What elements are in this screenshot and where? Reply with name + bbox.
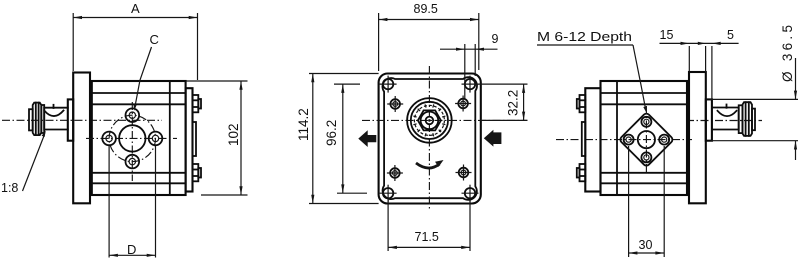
svg-text:30: 30 [639,238,653,252]
svg-text:A: A [131,1,140,16]
flow arrow right [484,130,502,147]
bolt head top (right view) [577,95,586,112]
wire: body split line [169,81,171,195]
mounting flange (right view) [689,72,706,203]
port boss on cover [193,122,197,156]
washer (left shaft) [41,105,44,133]
pilot boss (right view) [706,99,712,140]
corner hole BL [380,185,397,202]
wire: body lines right view [601,92,688,94]
wire: shaft centerline left view [2,119,162,121]
svg-text:M 6-12 Depth: M 6-12 Depth [537,29,632,44]
dimension 30 [629,146,665,257]
wire: port vertical centerline right view [645,106,647,174]
wire: right port horizontal centerline [556,139,692,141]
dimension dia 36.5 [710,25,798,160]
shaft boss circles [407,98,452,143]
port hole top [126,108,140,122]
svg-text:89.5: 89.5 [414,2,438,16]
svg-text:32.2: 32.2 [506,90,521,116]
corner hole TL [380,76,397,93]
corner hole TR [462,76,479,93]
shaft (left, tapered 1:8) [44,105,68,130]
port relief diamond [619,112,674,167]
label M 6-12 Depth with leader [537,29,646,113]
dimension 71.5 [388,199,470,251]
port hole right [149,132,163,146]
wire: port horizontal centerline [86,137,177,139]
shaft (right, tapered) [712,105,739,130]
svg-text:71.5: 71.5 [415,230,439,244]
flange plate outline [379,74,481,204]
bolt head bottom (left view) [193,164,202,181]
dimension 89.5 [379,2,479,71]
dimension 102 [186,81,248,195]
svg-text:1:8: 1:8 [1,181,18,195]
tapped hole W [624,135,634,145]
center port hole [119,125,145,151]
bolt circle (dash-dot) [109,115,155,161]
dimension 15 and 5 [660,28,739,99]
dimension 114.2 [296,74,379,204]
tapped hole N [641,117,651,127]
pilot boss (left, dia 36.5) [68,99,73,140]
port boss on cover (right view) [582,122,586,156]
rear cover (left view) [186,88,193,191]
small hole TR [455,96,471,112]
tapped hole S [641,152,651,162]
wire: port vertical centerline [131,102,133,181]
wire: body lower lines [92,172,186,174]
svg-text:C: C [150,32,159,47]
flow arrow left [358,130,376,147]
dimension 9 [440,32,499,98]
svg-text:96.2: 96.2 [324,120,339,146]
nut (left shaft) [29,103,41,136]
tapped hole E [659,135,669,145]
center port hole (right view) [638,131,655,148]
svg-text:15: 15 [660,28,674,42]
pump body (right view) [601,81,688,195]
svg-text:5: 5 [727,28,734,42]
mounting flange (left view) [73,73,90,204]
washer (right shaft) [739,105,743,133]
wire: right shaft centerline [686,120,762,122]
nut (right shaft) [743,102,756,136]
bolt head bottom (right view) [577,164,586,181]
dimension 96.2 [324,84,367,193]
small hole BR [456,165,472,181]
corner hole BR [462,185,479,202]
bolt head top (left view) [193,95,202,112]
port hole bottom [126,155,140,169]
small hole BL [387,165,403,181]
svg-text:102: 102 [226,123,241,146]
flange inner contour [382,77,477,200]
dimension 32.2 [475,84,528,120]
rear cover (right view) [585,88,600,191]
label C with leader [134,32,159,111]
dimension A [73,1,197,80]
svg-text:D: D [127,242,136,257]
dimension D [109,146,155,258]
wire: middle vertical centerline [428,66,430,211]
svg-text:114.2: 114.2 [296,108,311,141]
small hole TL [387,96,403,112]
svg-text:9: 9 [492,32,499,46]
rotation arrow [416,160,444,168]
pump body (left view) [92,81,186,195]
wire: middle horizontal centerline [362,119,527,121]
wire: body upper lines [92,92,186,94]
label 1:8 with leader [1,131,46,196]
port hole left [102,132,116,146]
